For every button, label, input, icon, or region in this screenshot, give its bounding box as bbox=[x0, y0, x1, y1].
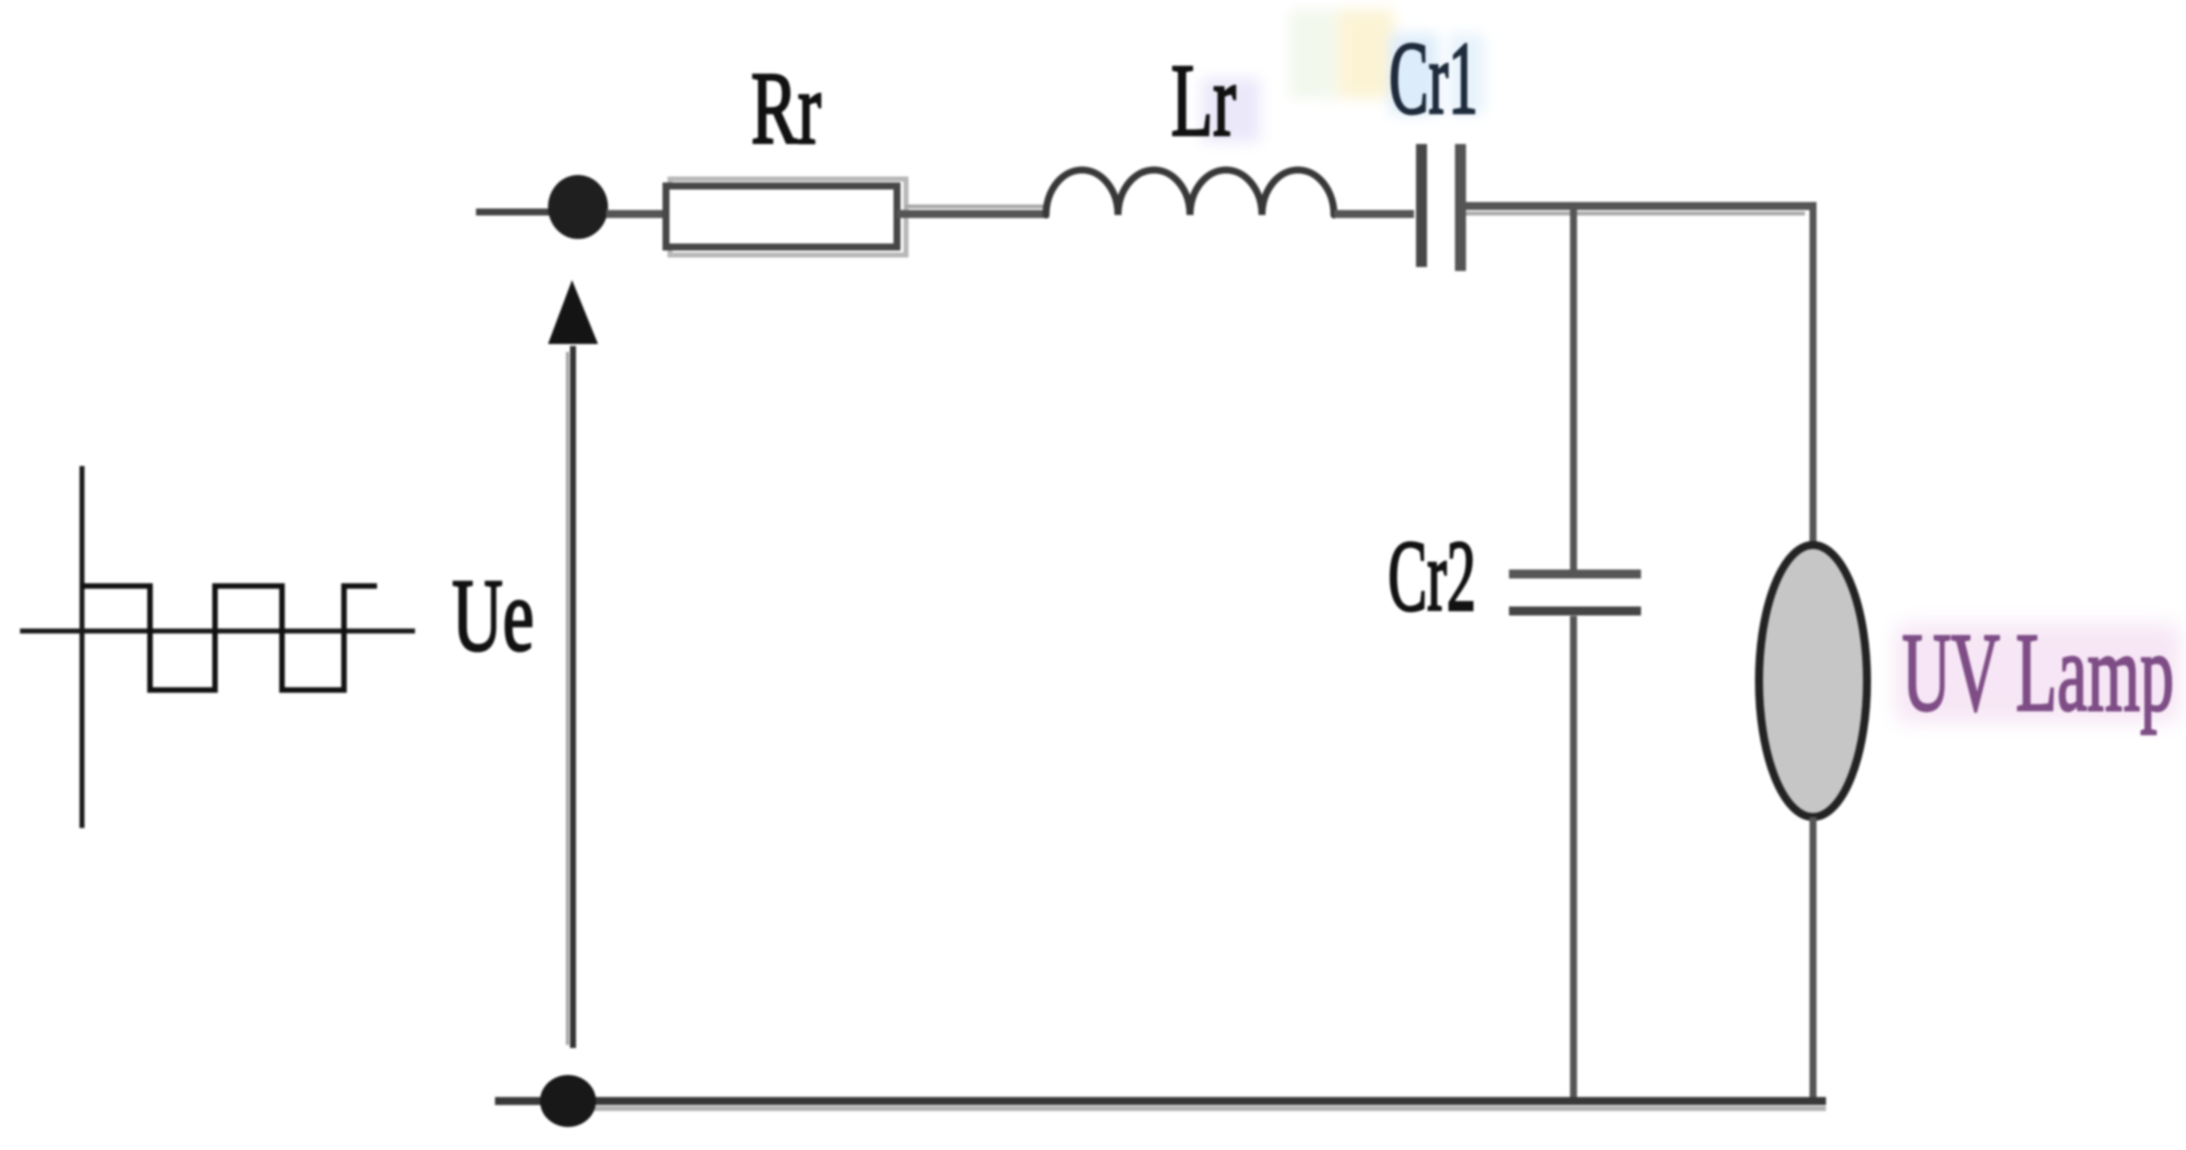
source axis vertical bbox=[80, 466, 85, 828]
wire top-left stub bbox=[476, 209, 562, 216]
UV lamp ellipse bbox=[1759, 545, 1867, 817]
source axis horizontal bbox=[20, 629, 415, 634]
wire Cr2 branch lower bbox=[1570, 616, 1577, 1100]
svg-text:UV Lamp: UV Lamp bbox=[1902, 611, 2174, 735]
wire inductor to Cr1 bbox=[1334, 210, 1414, 218]
wire Cr1 to right corner bbox=[1466, 202, 1816, 210]
svg-text:Lr: Lr bbox=[1171, 43, 1236, 158]
svg-text:Rr: Rr bbox=[751, 51, 821, 166]
svg-text:Cr2: Cr2 bbox=[1388, 520, 1476, 633]
arrow Ue shaft bbox=[570, 346, 576, 1048]
svg-text:Cr1: Cr1 bbox=[1389, 21, 1478, 136]
wire dot to resistor bbox=[606, 210, 668, 218]
label Cr1 tint yellow bbox=[1338, 10, 1394, 98]
wire bottom bbox=[495, 1097, 1826, 1105]
svg-text:Ue: Ue bbox=[452, 558, 534, 673]
arrow Ue head bbox=[548, 280, 598, 344]
label Cr1 tint blue bbox=[1390, 34, 1438, 114]
wire Cr2 branch upper bbox=[1570, 206, 1577, 570]
wire resistor to inductor gray fringe bbox=[905, 205, 1045, 209]
label UV Lamp halo bbox=[1896, 624, 2180, 722]
resistor Rr bbox=[666, 186, 897, 247]
node top terminal dot bbox=[548, 175, 608, 239]
label Lr tint bbox=[1202, 78, 1260, 142]
capacitor Cr2 top plate bbox=[1509, 570, 1641, 579]
capacitor Cr2 bottom plate bbox=[1509, 607, 1641, 616]
inductor Lr bbox=[1046, 170, 1334, 215]
capacitor Cr1 left plate bbox=[1416, 144, 1427, 267]
node bottom terminal dot bbox=[540, 1075, 596, 1127]
label Cr1 tint blue2 bbox=[1450, 34, 1484, 114]
wire resistor to inductor bbox=[897, 210, 1049, 218]
resistor Rr shadow bbox=[670, 179, 906, 255]
arrow shaft gray fringe bbox=[566, 352, 569, 1045]
label Cr1 tint green bbox=[1290, 10, 1340, 98]
capacitor Cr1 right plate bbox=[1455, 144, 1466, 271]
wire lamp branch upper bbox=[1810, 202, 1817, 548]
wire lamp branch lower bbox=[1810, 817, 1817, 1100]
wire Cr1 to corner gray fringe bbox=[1466, 212, 1805, 216]
square wave Ue source waveform bbox=[82, 586, 377, 690]
wire bottom gray fringe bbox=[560, 1106, 1826, 1111]
